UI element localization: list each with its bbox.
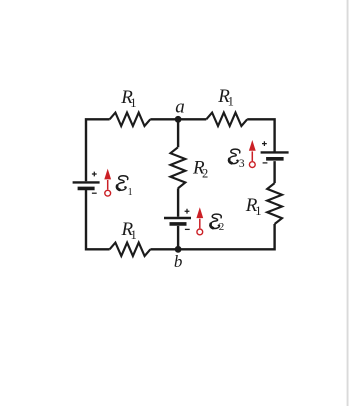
emf arrow for E3 xyxy=(249,140,256,168)
svg-text:1: 1 xyxy=(131,228,137,242)
battery E2 minus sign xyxy=(185,228,190,230)
svg-text:2: 2 xyxy=(219,221,225,233)
battery E2 short thick plate (-) xyxy=(170,222,187,226)
label script E1 xyxy=(116,176,128,190)
svg-text:1: 1 xyxy=(128,187,133,198)
resistor R1 (bottom) zigzag xyxy=(110,243,151,256)
battery E1 long plate (+) xyxy=(73,181,100,183)
label script E2 xyxy=(210,214,222,228)
resistor R1 (top-right) zigzag xyxy=(206,113,247,126)
resistor R2 (middle branch) zigzag xyxy=(171,147,186,188)
svg-text:1: 1 xyxy=(130,96,136,110)
emf arrow for E2 xyxy=(196,207,203,235)
node b junction dot xyxy=(175,246,182,253)
svg-text:b: b xyxy=(174,252,183,271)
node a junction dot xyxy=(175,116,182,123)
battery E3 minus sign xyxy=(263,162,268,164)
svg-text:2: 2 xyxy=(202,166,208,180)
emf arrow for E1 xyxy=(104,169,111,197)
battery E3 long plate (+) xyxy=(261,151,289,153)
svg-text:1: 1 xyxy=(228,95,234,109)
svg-text:1: 1 xyxy=(255,204,261,218)
right edge scrollbar strip xyxy=(347,0,349,406)
battery E2 long plate (+) xyxy=(164,217,191,219)
battery E3 plus sign xyxy=(262,141,267,146)
wire: outer loop (left side below battery E1, bottom, right side up to battery E3) xyxy=(86,119,275,249)
battery E1 short thick plate (-) xyxy=(78,187,95,191)
battery E1 minus sign xyxy=(92,192,97,194)
label script E3 xyxy=(228,149,240,163)
wire: middle branch from node a to R2 and from R2 to battery E2, battery E2 to node b xyxy=(177,119,179,249)
battery E3 short thick plate (-) xyxy=(266,157,284,161)
battery E2 plus sign xyxy=(185,209,190,214)
resistor R1 (right side) zigzag xyxy=(267,183,282,224)
battery E1 plus sign xyxy=(92,172,97,177)
svg-text:3: 3 xyxy=(239,158,245,170)
svg-text:a: a xyxy=(175,96,185,117)
resistor R1 (top-left) zigzag xyxy=(110,113,151,126)
